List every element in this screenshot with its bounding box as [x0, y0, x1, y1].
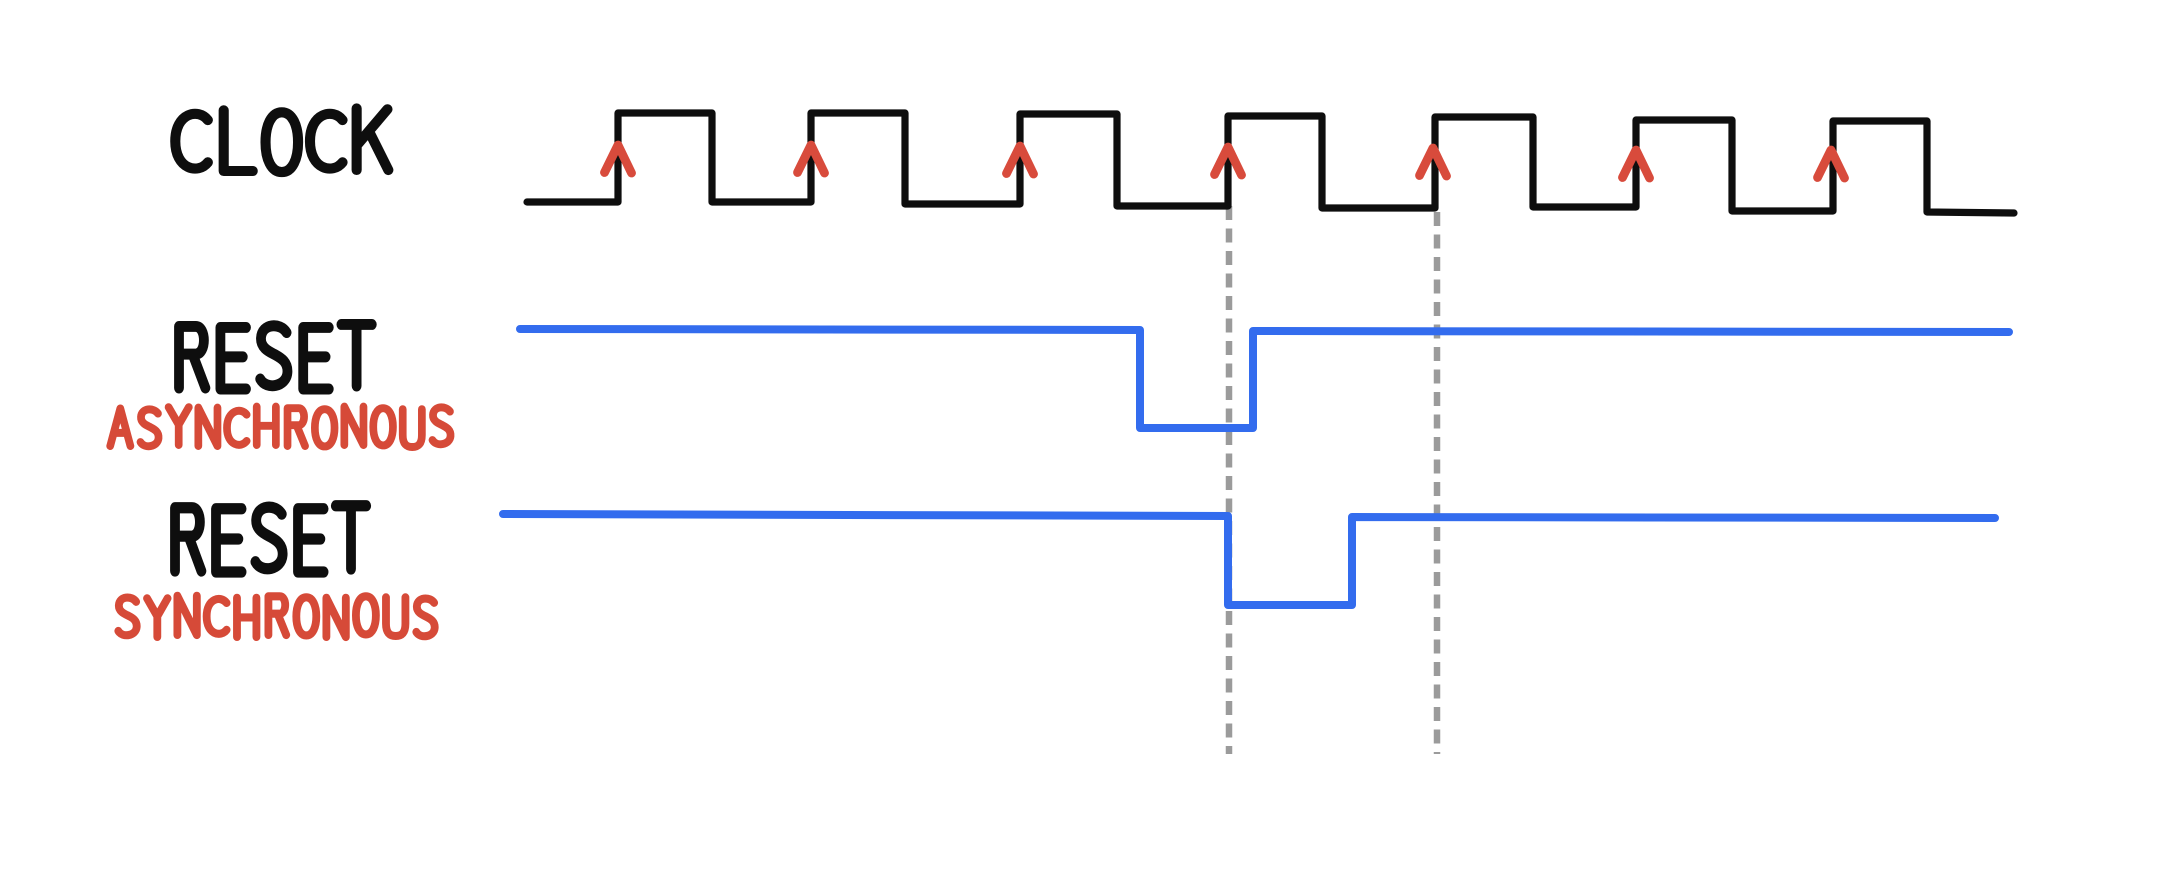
rising-edge arrow 3	[1007, 146, 1034, 174]
dashed line (clock edge 4)	[1226, 206, 1233, 754]
rising-edge arrow 7	[1818, 150, 1845, 178]
rising-edge arrow 1	[605, 145, 632, 173]
async reset waveform	[520, 329, 2009, 428]
label CLOCK	[175, 108, 388, 172]
label ASYNCHRONOUS	[110, 407, 450, 447]
sync reset waveform	[503, 514, 1995, 605]
label RESET (asynchronous)	[179, 324, 372, 389]
dashed line (clock edge 5)	[1434, 212, 1441, 754]
rising-edge arrow 6	[1623, 150, 1650, 178]
rising-edge arrow 2	[798, 145, 825, 173]
rising-edge arrow 4	[1215, 147, 1242, 175]
label RESET (synchronous)	[175, 506, 366, 572]
rising-edge arrow 5	[1420, 148, 1447, 176]
label SYNCHRONOUS	[118, 596, 434, 637]
clock waveform	[527, 113, 2014, 213]
